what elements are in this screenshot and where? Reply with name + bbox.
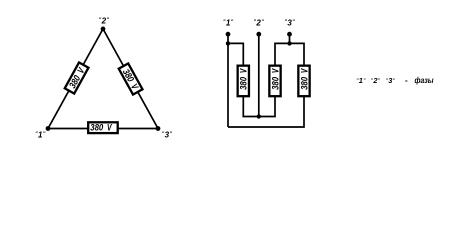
wire: phase 1 branch to R1 top: [228, 43, 243, 65]
svg-text:380V: 380V: [90, 122, 112, 133]
svg-text:380V: 380V: [269, 68, 280, 90]
wire: R1 bottom to mid junction: [243, 97, 258, 117]
node 1 (triangle bottom-left): [46, 126, 51, 131]
wire: triangle side node1-node3: [48, 128, 158, 130]
svg-text:фазы: фазы: [415, 76, 434, 85]
wire: triangle side node1-node2: [48, 29, 103, 129]
wire: phase 3 branch to R2 top: [275, 43, 290, 65]
node 3 (triangle bottom-right): [156, 126, 161, 131]
wire: phase 1 vertical down to bottom bus: [227, 34, 229, 127]
resistor 380 V (R2): [269, 66, 280, 97]
junction phase 3 branch: [287, 41, 291, 45]
wire: triangle side node2-node3: [103, 29, 158, 129]
wire: phase 3 vertical stub: [289, 34, 291, 43]
winding 380 V (triangle side 2-3): [119, 63, 143, 94]
wire: bottom bus phase1 to R3 bottom: [228, 97, 304, 128]
winding 380 V (triangle side 1-2): [64, 62, 88, 93]
terminal dot phase 2: [256, 32, 261, 37]
svg-text:-: -: [405, 76, 408, 85]
resistor 380 V (R3): [298, 66, 309, 97]
svg-text:380V: 380V: [238, 68, 249, 90]
node 2 (triangle apex): [101, 27, 106, 32]
junction phase 2 with R1,R2 bottoms: [257, 114, 261, 118]
junction phase 1 branch: [226, 41, 230, 45]
svg-text:380V: 380V: [298, 68, 309, 90]
resistor 380 V (R1): [238, 66, 249, 97]
winding 380 V (triangle side 1-3): [88, 122, 118, 133]
wire: phase 2 vertical: [258, 34, 260, 116]
terminal dot phase 3: [287, 32, 292, 37]
wire: phase 3 branch to R3 top: [290, 43, 305, 65]
wire: R2 bottom to mid junction: [259, 97, 275, 117]
terminal dot phase 1: [226, 32, 231, 37]
